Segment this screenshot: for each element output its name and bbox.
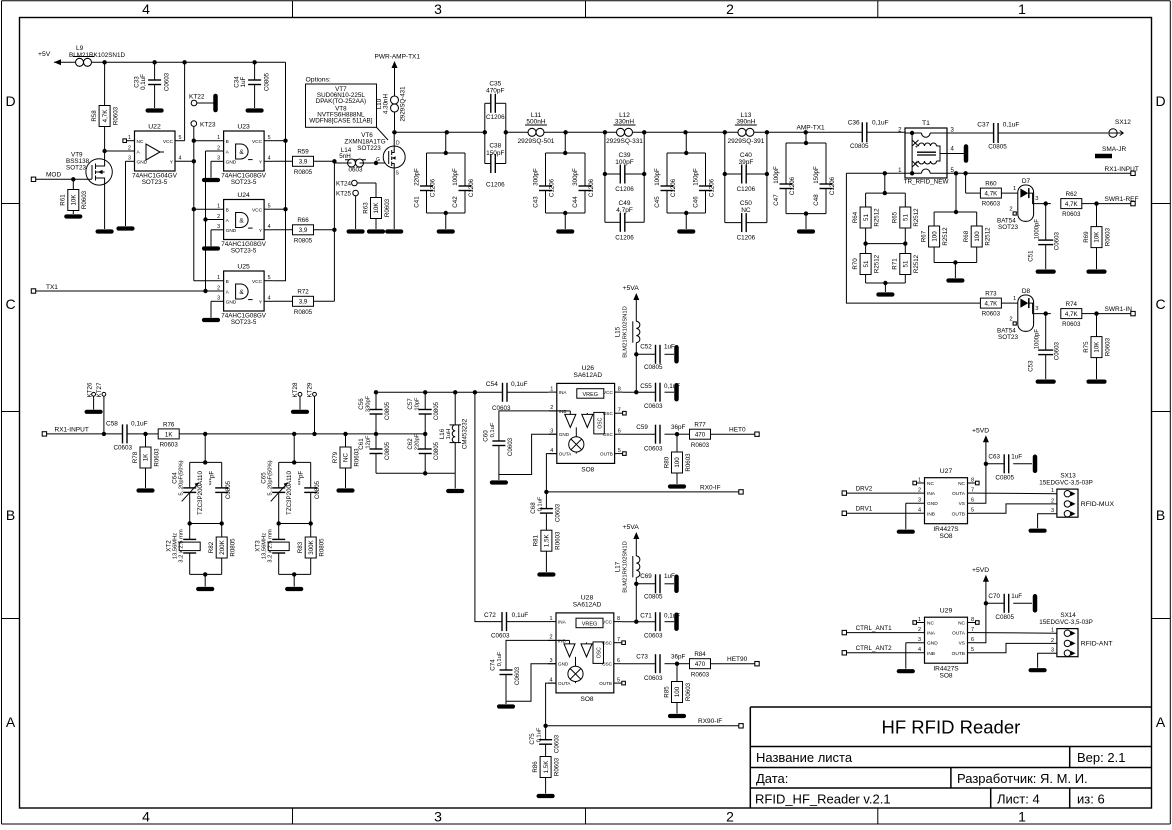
svg-text:R75: R75 xyxy=(1083,341,1090,353)
svg-text:BLM21RK102SN1D: BLM21RK102SN1D xyxy=(622,306,628,358)
svg-text:INB: INB xyxy=(927,651,935,657)
svg-text:C38: C38 xyxy=(489,143,501,150)
svg-text:R62: R62 xyxy=(1066,191,1078,198)
svg-text:C1206: C1206 xyxy=(430,178,437,197)
svg-text:VREG: VREG xyxy=(583,392,599,398)
svg-text:C0603: C0603 xyxy=(1054,231,1061,250)
svg-text:5: 5 xyxy=(617,677,620,683)
svg-text:NC: NC xyxy=(741,207,751,214)
svg-text:1: 1 xyxy=(217,204,220,210)
svg-text:GND: GND xyxy=(927,501,938,507)
svg-text:RX1-INPUT: RX1-INPUT xyxy=(55,427,89,434)
svg-text:1: 1 xyxy=(918,477,921,483)
svg-text:U28: U28 xyxy=(581,594,594,601)
svg-text:1uH: 1uH xyxy=(446,429,452,440)
test point KT29 xyxy=(307,382,317,434)
svg-text:0,1uF: 0,1uF xyxy=(131,421,148,428)
svg-text:3: 3 xyxy=(128,156,131,162)
svg-text:51: 51 xyxy=(863,260,870,267)
svg-text:VCC: VCC xyxy=(163,139,174,145)
svg-text:C1206: C1206 xyxy=(615,235,634,242)
svg-text:SA612AD: SA612AD xyxy=(573,601,602,608)
svg-text:SO8: SO8 xyxy=(580,696,593,703)
svg-text:C0603: C0603 xyxy=(644,403,663,410)
svg-text:D: D xyxy=(396,141,400,147)
AND gate U23 74AHC1G08GV xyxy=(194,124,272,187)
svg-text:0,1uF: 0,1uF xyxy=(511,381,528,388)
net +5VA U26 xyxy=(623,285,640,321)
svg-text:2929SQ-501: 2929SQ-501 xyxy=(518,138,555,145)
svg-text:B: B xyxy=(1156,507,1165,523)
svg-text:U24: U24 xyxy=(237,192,250,199)
svg-text:Дата:: Дата: xyxy=(756,771,788,786)
svg-text:10K: 10K xyxy=(71,194,78,206)
svg-text:&: & xyxy=(239,289,244,296)
svg-text:6: 6 xyxy=(971,637,974,643)
svg-text:36pF: 36pF xyxy=(671,654,686,661)
svg-text:R0603: R0603 xyxy=(1104,227,1111,246)
connector SX12 SMA-JR xyxy=(1095,119,1131,156)
svg-text:8: 8 xyxy=(618,386,621,392)
resistor R63 xyxy=(362,183,391,232)
svg-text:CTRL_ANT2: CTRL_ANT2 xyxy=(856,645,893,652)
svg-text:L17: L17 xyxy=(615,561,622,572)
net RX90-IF xyxy=(543,683,743,728)
svg-text:10K: 10K xyxy=(1094,341,1101,353)
capacitor C58 xyxy=(106,421,148,452)
svg-text:R0805: R0805 xyxy=(319,538,326,557)
svg-text:C0805: C0805 xyxy=(995,474,1014,481)
svg-text:390nH: 390nH xyxy=(736,118,755,125)
svg-text:DRV2: DRV2 xyxy=(856,485,873,492)
resistor R80 xyxy=(663,434,692,486)
svg-text:C45: C45 xyxy=(654,196,661,208)
svg-text:100: 100 xyxy=(674,686,681,697)
svg-text:10K: 10K xyxy=(373,202,380,214)
inductor L15 xyxy=(615,306,640,394)
svg-text:VS: VS xyxy=(959,641,965,647)
svg-text:SX14: SX14 xyxy=(1060,612,1076,619)
svg-text:51: 51 xyxy=(863,214,870,221)
svg-text:1K: 1K xyxy=(143,453,150,461)
svg-text:C73: C73 xyxy=(636,654,648,661)
svg-text:IR4427S: IR4427S xyxy=(933,526,959,533)
svg-text:GND: GND xyxy=(226,300,237,306)
svg-text:R80: R80 xyxy=(663,456,670,468)
svg-text:OSC: OSC xyxy=(597,417,603,428)
svg-text:CM453232: CM453232 xyxy=(462,418,469,449)
svg-text:C1206: C1206 xyxy=(709,178,716,197)
svg-text:C0805: C0805 xyxy=(644,364,663,371)
resistor R76 xyxy=(146,421,377,448)
driver U29 IR4427S with SX14 xyxy=(842,567,1112,680)
svg-text:C0805: C0805 xyxy=(384,441,391,460)
svg-text:Разработчик: Я. М. И.: Разработчик: Я. М. И. xyxy=(957,771,1088,786)
wire VCC vertical C xyxy=(272,62,288,280)
svg-text:C0805: C0805 xyxy=(995,614,1014,621)
svg-text:1,5K: 1,5K xyxy=(544,533,551,547)
wire carrier vertical B xyxy=(203,151,207,293)
svg-text:10K: 10K xyxy=(1094,231,1101,243)
svg-text:R61: R61 xyxy=(60,194,67,206)
wire gate resistor join xyxy=(332,159,336,301)
svg-text:R77: R77 xyxy=(694,422,706,429)
svg-text:SOT23: SOT23 xyxy=(998,334,1018,341)
svg-text:***pF: ***pF xyxy=(209,471,216,486)
svg-text:L15: L15 xyxy=(615,326,622,337)
svg-text:5..20pF(50%): 5..20pF(50%) xyxy=(268,460,274,495)
svg-text:15EDGVC-3,5-03P: 15EDGVC-3,5-03P xyxy=(1039,619,1093,626)
test point KT23 xyxy=(191,121,216,129)
crystal XT3 network xyxy=(255,434,326,589)
svg-text:5: 5 xyxy=(971,508,974,514)
inductor L10 xyxy=(376,70,407,132)
svg-text:AMP-TX1: AMP-TX1 xyxy=(797,125,826,132)
svg-text:OUTB: OUTB xyxy=(952,511,965,517)
svg-text:VCC: VCC xyxy=(252,208,263,214)
svg-text:R2512: R2512 xyxy=(874,208,881,227)
svg-text:GND: GND xyxy=(226,160,237,166)
svg-text:R0603: R0603 xyxy=(685,453,692,472)
svg-text:2929SQ-431: 2929SQ-431 xyxy=(400,86,407,122)
svg-text:U26: U26 xyxy=(582,365,595,372)
svg-text:0,1uF: 0,1uF xyxy=(497,651,503,666)
svg-text:C64: C64 xyxy=(172,472,179,484)
svg-text:Options:: Options: xyxy=(306,77,331,84)
svg-text:Название листа: Название листа xyxy=(756,750,853,765)
svg-text:C47: C47 xyxy=(773,194,780,206)
svg-text:NC: NC xyxy=(958,621,965,627)
svg-text:100: 100 xyxy=(674,457,681,468)
svg-text:470: 470 xyxy=(695,432,706,439)
svg-text:R0603: R0603 xyxy=(153,448,160,467)
svg-text:R0603: R0603 xyxy=(554,531,561,550)
svg-text:C1206: C1206 xyxy=(737,235,756,242)
svg-text:4,7K: 4,7K xyxy=(1065,201,1079,208)
svg-text:R0805: R0805 xyxy=(294,309,313,316)
svg-text:R60: R60 xyxy=(985,181,997,188)
svg-text:500nH: 500nH xyxy=(526,118,545,125)
capacitor C47 C48 shunt pair xyxy=(773,132,836,231)
svg-text:3: 3 xyxy=(434,809,442,825)
svg-text:U29: U29 xyxy=(940,608,953,615)
svg-text:C42: C42 xyxy=(452,196,459,208)
svg-text:15EDGVC-3,5-03P: 15EDGVC-3,5-03P xyxy=(1039,479,1093,486)
svg-text:0,1uF: 0,1uF xyxy=(490,422,496,437)
options note box xyxy=(306,77,389,141)
svg-text:5: 5 xyxy=(179,135,182,141)
svg-text:R83: R83 xyxy=(297,541,304,553)
svg-text:OUTA: OUTA xyxy=(558,681,571,686)
svg-text:5: 5 xyxy=(971,647,974,653)
svg-text:OUTB: OUTB xyxy=(600,452,613,457)
svg-text:SO8: SO8 xyxy=(939,673,952,680)
svg-text:SOT23: SOT23 xyxy=(998,224,1018,231)
svg-text:C0805: C0805 xyxy=(433,441,440,460)
svg-text:1uF: 1uF xyxy=(664,344,675,351)
svg-text:R82: R82 xyxy=(208,541,215,553)
svg-text:C0603: C0603 xyxy=(114,445,133,452)
svg-text:4: 4 xyxy=(550,448,553,454)
svg-text:3: 3 xyxy=(217,156,220,162)
net +5V xyxy=(38,51,75,65)
svg-text:1: 1 xyxy=(918,617,921,623)
capacitor C74 xyxy=(490,640,556,706)
svg-text:2: 2 xyxy=(918,487,921,493)
svg-text:R74: R74 xyxy=(1066,301,1078,308)
svg-text:C0603: C0603 xyxy=(164,72,171,91)
svg-text:HET0: HET0 xyxy=(729,427,746,434)
test point KT26 xyxy=(87,382,101,412)
svg-text:C58: C58 xyxy=(106,421,118,428)
svg-text:C1206: C1206 xyxy=(829,176,836,195)
svg-text:R0603: R0603 xyxy=(554,757,561,776)
svg-text:C0603: C0603 xyxy=(644,633,663,640)
svg-text:6: 6 xyxy=(971,498,974,504)
resistor R85 xyxy=(663,664,692,716)
svg-text:R84: R84 xyxy=(694,651,706,658)
svg-text:C37: C37 xyxy=(977,122,989,129)
capacitor C54 xyxy=(486,381,549,412)
svg-text:U22: U22 xyxy=(148,124,161,131)
net RX0-IF xyxy=(544,454,743,495)
capacitor C34 xyxy=(234,62,271,110)
svg-text:R0603: R0603 xyxy=(160,442,179,449)
capacitor C71 xyxy=(622,612,680,639)
capacitor C33 xyxy=(134,62,171,110)
svg-text:из: 6: из: 6 xyxy=(1077,792,1105,807)
svg-text:R58: R58 xyxy=(91,110,98,122)
svg-text:C72: C72 xyxy=(484,612,496,619)
svg-text:2: 2 xyxy=(217,285,220,291)
svg-text:3: 3 xyxy=(550,429,553,435)
svg-text:SO8: SO8 xyxy=(939,533,952,540)
resistor network R64 R65 R70 R71 xyxy=(852,173,920,294)
svg-text:100: 100 xyxy=(931,231,938,242)
svg-text:1uF: 1uF xyxy=(664,573,675,580)
svg-text:OUTA: OUTA xyxy=(952,631,966,637)
svg-text:C0805: C0805 xyxy=(988,144,1007,151)
svg-text:C0603: C0603 xyxy=(644,446,663,453)
svg-text:D: D xyxy=(1155,93,1165,109)
svg-text:4,7K: 4,7K xyxy=(985,191,999,198)
svg-text:C75: C75 xyxy=(529,733,536,745)
svg-text:C0805: C0805 xyxy=(314,480,321,499)
svg-text:2: 2 xyxy=(549,635,552,641)
transistor VT6 ZXMN18A1TG xyxy=(344,132,405,232)
svg-text:R0603: R0603 xyxy=(81,190,88,209)
svg-text:5: 5 xyxy=(268,135,271,141)
svg-text:C1206: C1206 xyxy=(468,178,475,197)
svg-text:R2512: R2512 xyxy=(913,254,920,273)
svg-text:MOD: MOD xyxy=(46,172,61,179)
svg-text:R0805: R0805 xyxy=(294,169,313,176)
svg-text:L16: L16 xyxy=(439,428,446,439)
svg-text:0,1uF: 0,1uF xyxy=(537,496,543,511)
svg-text:5: 5 xyxy=(618,448,621,454)
svg-text:R2512: R2512 xyxy=(874,254,881,273)
svg-text:1000pF: 1000pF xyxy=(1035,329,1041,350)
svg-text:R2512: R2512 xyxy=(942,227,949,246)
capacitor C35 C38 series pair xyxy=(483,81,508,189)
svg-text:OUTB: OUTB xyxy=(599,681,612,686)
svg-text:4: 4 xyxy=(142,1,150,17)
svg-text:0,1uF: 0,1uF xyxy=(140,74,147,90)
svg-text:R0603: R0603 xyxy=(691,671,710,678)
port RX1-INPUT left xyxy=(42,427,122,437)
svg-text:1: 1 xyxy=(128,135,131,141)
svg-text:NC: NC xyxy=(958,481,965,487)
svg-text:4: 4 xyxy=(268,296,271,302)
svg-text:3,9: 3,9 xyxy=(299,299,308,306)
driver U27 IR4427S with SX13 xyxy=(842,427,1114,540)
svg-text:VCC: VCC xyxy=(252,279,263,285)
svg-text:C35: C35 xyxy=(489,81,501,88)
svg-text:C0603: C0603 xyxy=(1054,341,1061,360)
svg-text:3: 3 xyxy=(1035,306,1038,312)
svg-text:GND: GND xyxy=(559,432,570,437)
svg-text:C53: C53 xyxy=(1028,360,1035,372)
inductor L11 xyxy=(518,112,555,145)
svg-text:PWR-AMP-TX1: PWR-AMP-TX1 xyxy=(375,54,421,61)
svg-text:300K: 300K xyxy=(308,539,315,554)
svg-text:R71: R71 xyxy=(892,258,899,270)
svg-text:R59: R59 xyxy=(297,149,309,156)
svg-text:C60: C60 xyxy=(483,430,490,442)
svg-text:R64: R64 xyxy=(852,211,859,223)
svg-text:&: & xyxy=(239,149,244,156)
wire carrier to U28 xyxy=(475,392,502,621)
svg-text:100pF: 100pF xyxy=(452,168,459,186)
svg-text:RX90-IF: RX90-IF xyxy=(698,718,722,725)
svg-text:Лист: 4: Лист: 4 xyxy=(997,792,1040,807)
diode D8 SWR1-IN branch xyxy=(846,173,1135,381)
svg-text:7: 7 xyxy=(617,637,620,643)
resistor R59 xyxy=(272,149,334,176)
svg-text:C52: C52 xyxy=(640,344,652,351)
svg-text:C46: C46 xyxy=(692,196,699,208)
svg-text:VS: VS xyxy=(959,501,965,507)
svg-text:R78: R78 xyxy=(132,451,139,463)
svg-text:XT3: XT3 xyxy=(255,540,262,552)
svg-text:3: 3 xyxy=(549,658,552,664)
svg-text:C: C xyxy=(1155,296,1165,312)
svg-text:C57: C57 xyxy=(407,398,414,410)
svg-text:KT24: KT24 xyxy=(336,181,352,188)
svg-text:2: 2 xyxy=(550,405,553,411)
svg-text:SOT23-5: SOT23-5 xyxy=(142,179,168,186)
svg-text:C36: C36 xyxy=(848,120,860,127)
svg-text:VREG: VREG xyxy=(582,621,598,627)
svg-text:2: 2 xyxy=(918,627,921,633)
svg-text:SMA-JR: SMA-JR xyxy=(1102,146,1127,153)
svg-text:2929SQ-391: 2929SQ-391 xyxy=(727,138,764,145)
svg-text:NC: NC xyxy=(343,453,350,462)
svg-text:CTRL_ANT1: CTRL_ANT1 xyxy=(856,625,893,632)
svg-text:U23: U23 xyxy=(237,124,250,131)
transformer T1 TR_RFID_NEW xyxy=(898,120,954,186)
svg-text:KT23: KT23 xyxy=(200,122,216,129)
svg-text:R76: R76 xyxy=(163,421,175,428)
svg-text:B: B xyxy=(226,279,229,285)
svg-text:TZC3P200A110: TZC3P200A110 xyxy=(286,470,293,514)
svg-text:VCC: VCC xyxy=(602,620,612,625)
capacitor C41 and C42 shunt pair xyxy=(413,132,475,231)
svg-text:C74: C74 xyxy=(490,659,497,671)
svg-text:220pF: 220pF xyxy=(415,433,421,450)
svg-text:1: 1 xyxy=(1018,809,1026,825)
svg-text:0,1uF: 0,1uF xyxy=(872,120,889,127)
svg-text:OUTA: OUTA xyxy=(559,452,572,457)
svg-text:7: 7 xyxy=(618,408,621,414)
capacitor C69 xyxy=(636,573,676,601)
svg-text:SWR1-IN: SWR1-IN xyxy=(1105,306,1133,313)
wire TX rail xyxy=(392,130,905,134)
svg-text:OSC: OSC xyxy=(597,647,603,658)
wire carrier vertical A xyxy=(192,126,196,280)
svg-text:NC: NC xyxy=(927,621,934,627)
svg-text:KT26: KT26 xyxy=(87,382,94,397)
svg-text:SX12: SX12 xyxy=(1115,119,1131,126)
svg-text:R85: R85 xyxy=(663,686,670,698)
svg-text:DRV1: DRV1 xyxy=(856,506,873,513)
svg-text:2929SQ-331: 2929SQ-331 xyxy=(606,138,643,145)
svg-text:D8: D8 xyxy=(1022,288,1031,295)
resistor R86 xyxy=(532,757,561,797)
svg-text:4: 4 xyxy=(268,224,271,230)
svg-text:+5V: +5V xyxy=(38,51,51,58)
svg-text:BLM21RK102SN1D: BLM21RK102SN1D xyxy=(622,541,628,593)
test point KT27 xyxy=(96,382,106,436)
svg-text:C65: C65 xyxy=(261,472,268,484)
svg-text:1uF: 1uF xyxy=(1011,454,1022,461)
svg-text:GND: GND xyxy=(927,641,938,647)
svg-text:4.30nH: 4.30nH xyxy=(383,94,390,114)
svg-text:GND: GND xyxy=(558,662,569,667)
svg-text:C0603: C0603 xyxy=(644,675,663,682)
svg-text:0,1uF: 0,1uF xyxy=(1003,122,1020,129)
svg-text:300pF: 300pF xyxy=(572,168,579,186)
svg-text:1: 1 xyxy=(217,275,220,281)
svg-text:51: 51 xyxy=(903,260,910,267)
svg-text:4: 4 xyxy=(918,647,921,653)
svg-text:1uF: 1uF xyxy=(240,76,247,87)
svg-text:B: B xyxy=(226,208,229,214)
svg-text:100: 100 xyxy=(974,231,981,242)
crystal XT2 network xyxy=(166,434,237,589)
svg-text:7: 7 xyxy=(971,627,974,633)
svg-text:C40: C40 xyxy=(740,152,752,159)
svg-text:36pF: 36pF xyxy=(671,424,686,431)
inductor L12 with C39 C49 tank xyxy=(603,112,647,242)
svg-text:C54: C54 xyxy=(486,381,498,388)
capacitor C60 xyxy=(483,411,557,483)
capacitor C37 xyxy=(947,122,1108,151)
svg-text:C0805: C0805 xyxy=(264,72,271,91)
svg-text:RFID_HF_Reader v.2.1: RFID_HF_Reader v.2.1 xyxy=(755,792,891,807)
svg-text:D: D xyxy=(5,93,15,109)
svg-text:R0805: R0805 xyxy=(294,237,313,244)
svg-text:3: 3 xyxy=(1035,196,1038,202)
svg-text:R67: R67 xyxy=(920,230,927,242)
svg-text:R73: R73 xyxy=(985,291,997,298)
inductor L13 with C40 C50 tank xyxy=(723,112,770,242)
capacitor C73 and HET90 output xyxy=(622,651,759,682)
ground U22 xyxy=(119,161,133,228)
svg-text:C1206: C1206 xyxy=(486,114,505,121)
capacitor C45 C46 shunt pair xyxy=(654,132,716,231)
test point KT25 xyxy=(336,190,363,231)
